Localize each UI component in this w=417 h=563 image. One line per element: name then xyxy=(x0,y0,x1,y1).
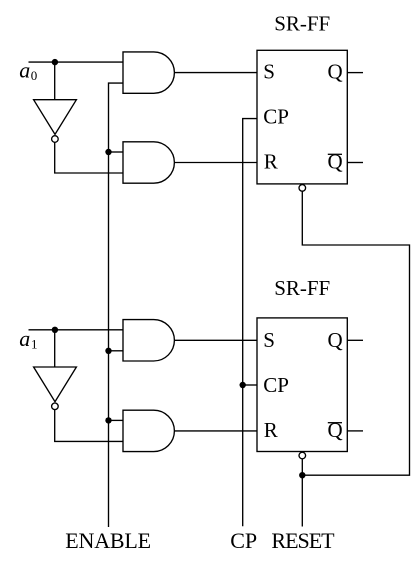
svg-text:RESET: RESET xyxy=(271,528,335,553)
svg-text:Q: Q xyxy=(328,328,343,352)
svg-text:ENABLE: ENABLE xyxy=(65,528,151,553)
svg-text:Q: Q xyxy=(328,150,343,174)
svg-text:0: 0 xyxy=(31,68,38,83)
svg-text:a: a xyxy=(19,326,30,351)
svg-text:R: R xyxy=(264,418,278,442)
svg-text:Q: Q xyxy=(328,60,343,84)
svg-text:Q: Q xyxy=(328,418,343,442)
svg-text:a: a xyxy=(19,58,30,83)
svg-text:SR-FF: SR-FF xyxy=(274,276,330,300)
svg-text:1: 1 xyxy=(31,336,38,351)
svg-text:R: R xyxy=(264,150,278,174)
svg-text:CP: CP xyxy=(230,528,257,553)
svg-text:CP: CP xyxy=(263,104,289,128)
svg-text:CP: CP xyxy=(263,373,289,397)
svg-text:S: S xyxy=(263,328,275,352)
svg-text:SR-FF: SR-FF xyxy=(274,11,330,35)
svg-text:S: S xyxy=(263,60,275,84)
